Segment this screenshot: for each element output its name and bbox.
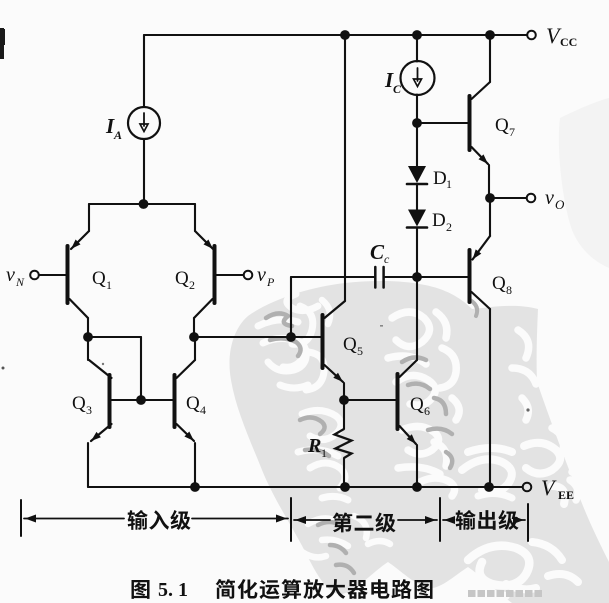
svg-text:D: D	[432, 210, 446, 231]
terminal vN	[30, 271, 39, 280]
transistor Q3 collector	[89, 360, 112, 378]
junction: Q1 collector node	[83, 332, 93, 342]
junction: rail/Q4 emitter	[190, 482, 200, 492]
svg-text:Q: Q	[492, 273, 506, 294]
wire: Q6 base wire	[344, 399, 396, 401]
svg-text:3: 3	[86, 403, 92, 417]
diode D1	[408, 166, 426, 183]
speck 3	[380, 325, 383, 327]
svg-text:8: 8	[506, 283, 512, 297]
wire: Q7 base wire	[417, 122, 468, 124]
wire: IA to rail	[143, 35, 145, 107]
wire: Q5 emitter down	[343, 383, 345, 400]
svg-text:1: 1	[321, 446, 327, 460]
svg-text:v: v	[257, 264, 266, 286]
wire: Q7 emitter to vO node	[488, 165, 490, 198]
junction: mirror base node	[136, 395, 146, 405]
terminal vO	[527, 194, 536, 203]
wire: IA to tail node	[143, 139, 145, 204]
junction: Q2 collector node	[189, 332, 199, 342]
wire: Q3 emitter to VEE rail	[87, 443, 89, 487]
label 输入级	[128, 510, 148, 530]
junction: vO node	[485, 193, 495, 203]
wire: VEE bottom rail	[88, 486, 522, 488]
transistor Q2 emitter	[195, 231, 213, 249]
svg-text:2: 2	[446, 220, 452, 234]
svg-text:1: 1	[446, 177, 452, 191]
svg-text:A: A	[113, 128, 122, 142]
transistor Q2 collector	[194, 299, 213, 318]
speck 2	[102, 363, 104, 365]
svg-text:N: N	[15, 275, 25, 289]
transistor Q7 emitter	[472, 147, 489, 164]
wire: Q4 emitter to VEE rail	[194, 443, 196, 487]
wire: Cc branch vertical	[290, 277, 292, 337]
junction: Q7 base node	[412, 118, 422, 128]
svg-text:C: C	[393, 82, 402, 96]
dim arrow input-left	[24, 518, 124, 520]
stage divider tick left	[20, 500, 22, 536]
svg-text:5. 1: 5. 1	[158, 579, 188, 601]
terminal vP	[244, 271, 253, 280]
transistor Q7 base bar	[468, 96, 472, 150]
wire: Q3 base to Q4 base	[112, 399, 173, 401]
svg-text:v: v	[6, 264, 15, 286]
transistor Q1 collector	[70, 299, 89, 318]
transistor Q2 base bar	[213, 246, 217, 303]
wire: IC to D1 node	[416, 95, 418, 124]
wire: D1 anode	[416, 123, 418, 166]
transistor Q6 base bar	[396, 374, 400, 429]
transistor Q5 emitter	[325, 365, 344, 382]
svg-text:Q: Q	[495, 115, 509, 136]
label 输出级	[456, 510, 476, 530]
svg-text:R: R	[307, 435, 321, 457]
svg-text:c: c	[384, 252, 390, 266]
wire: Q6 emitter to rail	[416, 445, 418, 487]
wire: Cc right	[385, 276, 417, 278]
svg-text:Q: Q	[186, 393, 200, 414]
label 第二级	[333, 512, 353, 532]
wire: Q2 base to vP	[217, 274, 244, 276]
wire: D1-D2	[416, 185, 418, 210]
dim arrow output-right	[519, 519, 525, 521]
caption text	[216, 579, 235, 599]
caption 图	[132, 580, 150, 599]
transistor Q5 base bar	[321, 315, 325, 368]
svg-text:Q: Q	[72, 393, 86, 414]
svg-text:EE: EE	[558, 488, 574, 502]
wire: node B to Q5 base	[194, 336, 321, 338]
dim arrow second-right	[398, 519, 437, 521]
junction: top rail / Q5 collector	[340, 30, 350, 40]
svg-text:O: O	[555, 197, 565, 212]
transistor Q1 base bar	[66, 246, 70, 303]
current source IC	[401, 61, 435, 95]
transistor Q4 emitter	[177, 424, 195, 441]
transistor Q3 base bar	[108, 375, 112, 427]
wire: vO stub	[490, 197, 526, 199]
stage divider tick mid-1	[290, 498, 292, 541]
svg-text:6: 6	[424, 404, 430, 418]
junction: tail node	[139, 199, 149, 209]
speck 1	[2, 367, 5, 370]
wire: vN to Q1 base	[39, 274, 66, 276]
wire: vO to Q8 emitter	[489, 198, 491, 236]
transistor Q4 collector	[177, 360, 196, 378]
junction: Cc tap on base wire	[286, 332, 296, 342]
wire: tail to Q2 emitter	[143, 203, 195, 205]
wire: Cc left	[291, 276, 374, 278]
left edge black mark	[0, 28, 4, 59]
wire: Q8 base wire	[417, 276, 468, 278]
transistor Q4 base bar	[173, 375, 177, 427]
transistor Q8 collector	[472, 292, 491, 309]
dim arrow output-left	[443, 519, 452, 521]
wire: D2 to Q8 base node	[416, 228, 418, 277]
transistor Q5 collector	[325, 301, 346, 318]
svg-text:2: 2	[189, 278, 195, 292]
transistor Q6 collector	[400, 360, 418, 377]
junction: Q6 base node	[339, 395, 349, 405]
wire: tail to Q1 emitter	[89, 203, 143, 205]
terminal VEE	[523, 483, 532, 492]
svg-text:Q: Q	[175, 268, 189, 289]
svg-text:CC: CC	[560, 35, 577, 49]
junction: Q8 base node	[412, 272, 422, 282]
svg-text:1: 1	[106, 278, 112, 292]
stage divider tick mid-2	[439, 498, 441, 541]
junction: rail/Q8 collector	[484, 482, 494, 492]
dim arrow input-right	[192, 518, 288, 520]
terminal Vcc	[527, 31, 536, 40]
svg-text:P: P	[266, 275, 275, 289]
capacitor Cc	[374, 267, 377, 288]
wire: Q1 collector to mirror bases	[88, 336, 141, 338]
junction: top rail / Q7 collector	[485, 30, 495, 40]
transistor Q8 emitter (arrow to bar)	[473, 236, 491, 260]
speck 4	[526, 408, 529, 411]
svg-text:Q: Q	[410, 394, 424, 415]
svg-text:D: D	[433, 168, 447, 189]
wire: IC to rail	[416, 35, 418, 62]
junction: top rail / IC branch	[412, 30, 422, 40]
watermark gray glyph strokes	[266, 313, 301, 356]
transistor Q7 collector	[472, 82, 491, 99]
current source IA	[128, 107, 160, 139]
watermark white glyph strokes	[266, 291, 318, 310]
svg-text:4: 4	[200, 403, 206, 417]
svg-text:7: 7	[509, 125, 515, 139]
watermark faint top-right wedge	[559, 98, 609, 268]
svg-text:Q: Q	[92, 268, 106, 289]
svg-text:Q: Q	[343, 334, 357, 355]
transistor Q3 emitter	[91, 424, 112, 441]
transistor Q6 emitter	[400, 426, 417, 444]
dim arrow second-left	[294, 519, 330, 521]
svg-text:v: v	[545, 187, 554, 209]
stage divider tick right	[527, 504, 529, 541]
resistor R1	[343, 400, 345, 429]
wire: Vcc top rail	[144, 34, 527, 36]
transistor Q8 base bar	[468, 250, 472, 302]
junction: rail/R1	[340, 482, 350, 492]
svg-text:5: 5	[357, 344, 363, 358]
svg-text:C: C	[370, 240, 385, 264]
caption publisher faint marks	[468, 590, 476, 597]
watermark gray blob	[230, 281, 609, 603]
transistor Q1 emitter	[71, 231, 89, 249]
junction: rail/Q6 emitter	[412, 482, 422, 492]
diode D2	[408, 210, 426, 227]
